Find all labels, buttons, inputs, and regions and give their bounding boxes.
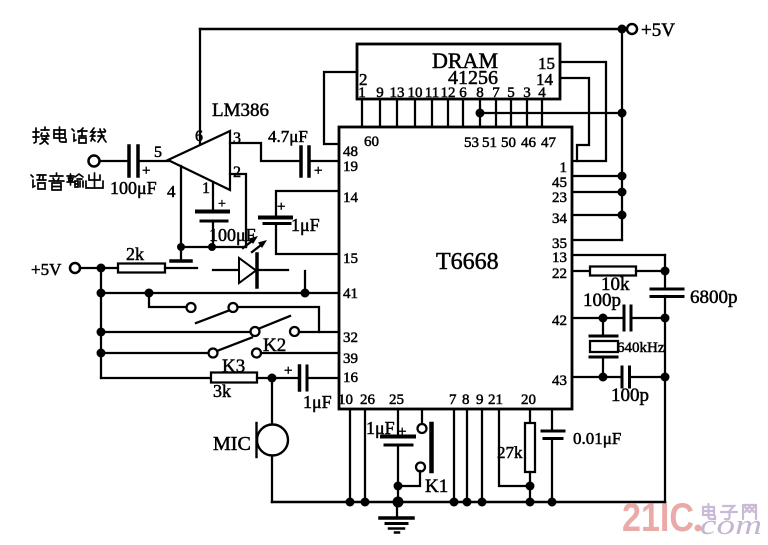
svg-text:45: 45 [552, 175, 567, 191]
svg-text:100p: 100p [583, 290, 621, 311]
wire LM386 pin4 down [180, 166, 182, 247]
svg-text:13: 13 [552, 250, 567, 266]
node junction pin4/gnd [177, 243, 185, 251]
resistor 3k row pin16 [101, 377, 211, 379]
switch K2 row pin32 [101, 331, 250, 333]
svg-text:5: 5 [154, 144, 162, 161]
ground stub under LM386 [180, 247, 182, 260]
label yu-yin-shu-chu (voice output) [31, 173, 103, 190]
svg-text:26: 26 [360, 392, 376, 408]
svg-text:22: 22 [552, 266, 567, 282]
svg-text:16: 16 [343, 370, 359, 386]
wire pin35 to +5V bus end [572, 239, 622, 241]
left bus vertical [100, 268, 102, 378]
wire pin34 to +5V bus [572, 214, 622, 216]
terminal +5V top right [627, 24, 637, 34]
right bus vertical upper [664, 255, 666, 289]
svg-text:3: 3 [233, 130, 241, 147]
svg-text:100p: 100p [611, 385, 649, 406]
svg-text:20: 20 [521, 392, 536, 408]
capacitor 0.01uF [551, 409, 553, 429]
svg-text:4: 4 [167, 182, 176, 201]
wire T6668 pin14 to C1uF [276, 191, 339, 216]
resistor 27k [529, 409, 531, 423]
svg-text:32: 32 [343, 330, 358, 346]
svg-text:+: + [142, 163, 150, 179]
svg-text:50: 50 [501, 135, 516, 151]
svg-text:41256: 41256 [448, 67, 498, 89]
svg-text:2: 2 [233, 164, 241, 181]
svg-text:1: 1 [560, 160, 568, 176]
capacitor 6800p [651, 288, 683, 291]
svg-text:LM386: LM386 [212, 100, 269, 121]
svg-text:MIC: MIC [213, 433, 251, 455]
svg-text:15: 15 [343, 251, 358, 267]
capacitor 100uF coupling (electrolytic) [127, 146, 131, 176]
node +5V junction [618, 25, 627, 34]
svg-text:53: 53 [464, 135, 479, 151]
wire LM386 pin6 to top rail [199, 29, 201, 144]
svg-text:1μF: 1μF [303, 392, 332, 412]
svg-text:21: 21 [488, 392, 503, 408]
svg-text:1μF: 1μF [291, 215, 320, 235]
svg-text:0.01μF: 0.01μF [573, 429, 621, 448]
svg-text:+5V: +5V [641, 20, 675, 41]
ground symbol [396, 502, 398, 516]
svg-text:14: 14 [343, 190, 359, 206]
svg-text:7: 7 [449, 392, 457, 408]
switch K1 [421, 409, 423, 424]
label jie-dian-hua-xian (telephone line) [33, 127, 106, 144]
wire DRAM pin15 to T6668 pin1 [560, 62, 606, 161]
op-amp U1 LM386 [168, 131, 230, 190]
svg-text:9: 9 [476, 392, 484, 408]
watermark 21IC logo [622, 496, 762, 541]
wire LM386 pin3 to C4.7uF [230, 143, 299, 161]
svg-text:+: + [314, 163, 322, 179]
wire pin22 to resistor 10k [572, 270, 590, 272]
svg-text:100μF: 100μF [209, 225, 256, 245]
resistor 2k [118, 264, 165, 273]
capacitor 100p lower [621, 367, 624, 387]
svg-text:25: 25 [389, 392, 404, 408]
wire DRAM pin14 to T6668 pin1 [560, 78, 589, 161]
svg-text:6800p: 6800p [690, 287, 738, 308]
svg-text:640kHz: 640kHz [617, 340, 665, 356]
svg-text:3k: 3k [213, 381, 231, 401]
crystal 640kHz [602, 318, 604, 336]
wire LM386 pin2 down to junction rail [230, 174, 246, 247]
wire terminal to C 100uF [100, 160, 127, 162]
node on +5V bus at DRAM8 wire [618, 109, 627, 118]
svg-text:+: + [277, 199, 285, 215]
switch row A [149, 293, 186, 307]
wire pin23 to +5V bus [572, 191, 622, 193]
terminal telephone line [89, 156, 100, 167]
IC DRAM 41256 [357, 44, 560, 99]
LED arrows [243, 240, 254, 249]
switch K3 row pin39 [101, 352, 208, 354]
svg-text:21IC: 21IC [622, 496, 694, 540]
wire DRAM pin2 to T6668 pin48 [324, 72, 357, 144]
node junction 100uF [208, 243, 216, 251]
wire pin10 down [349, 409, 351, 502]
svg-text:8: 8 [462, 392, 470, 408]
wire pin41 row [101, 292, 339, 294]
wire +5V right bus vertical [621, 29, 623, 240]
svg-text:43: 43 [552, 373, 567, 389]
svg-text:41: 41 [343, 286, 358, 302]
wire C to LM386 output pin5 [140, 160, 170, 162]
wire pin21 to 27k bottom [499, 409, 530, 486]
wire C4.7uF to T6668 pin19 [311, 160, 339, 162]
right bus vertical lower [664, 296, 666, 502]
svg-text:+: + [398, 424, 406, 440]
wire pin9 down [481, 409, 483, 502]
svg-text:1: 1 [202, 180, 210, 197]
wire top rail from LM386 pin6 to +5V [200, 28, 622, 31]
svg-text:51: 51 [482, 135, 497, 151]
resistor 10k [590, 267, 636, 276]
wire LM386 pin1 to C100uF [212, 182, 214, 210]
svg-text:100μF: 100μF [110, 178, 157, 198]
svg-text:42: 42 [552, 313, 567, 329]
DRAM bottom pin number labels [358, 85, 546, 101]
capacitor 1uF mic coupling [298, 366, 302, 390]
LED diode D1 [213, 269, 238, 271]
wire pin8 down [466, 409, 468, 502]
capacitor 1uF (pin25) [397, 409, 399, 434]
svg-text:+: + [284, 363, 292, 379]
node DRAM pin8 junction [476, 109, 485, 118]
wire bottom ground rail [272, 501, 665, 504]
svg-text:46: 46 [521, 135, 537, 151]
svg-text:1μF: 1μF [366, 418, 395, 438]
svg-text:48: 48 [343, 144, 358, 160]
label watermark dian-zi-wang [703, 504, 756, 519]
wire pin45 to +5V bus [572, 175, 622, 177]
svg-text:23: 23 [552, 190, 567, 206]
capacitor 100p upper [623, 306, 626, 330]
microphone MIC [271, 378, 273, 425]
wires DRAM bottom pins to T6668 top [361, 99, 363, 127]
svg-text:60: 60 [364, 134, 379, 150]
svg-text:39: 39 [343, 351, 358, 367]
wire pin26 down [364, 409, 366, 502]
svg-text:+5V: +5V [31, 260, 62, 279]
wire pin43 to capacitor 100p lower [572, 376, 621, 378]
wire DRAM pin8 to +5V bus [480, 112, 622, 114]
svg-text:4.7μF: 4.7μF [268, 127, 308, 146]
wire LED to pin41 line [304, 271, 306, 293]
IC T6668 [339, 127, 572, 409]
wire junction rail under LM386 [181, 246, 246, 248]
svg-text:34: 34 [552, 211, 568, 227]
svg-text:27k: 27k [497, 443, 523, 462]
wire pin7 down [453, 409, 455, 502]
wire pin42 to capacitor 100p [572, 317, 624, 319]
svg-text:2k: 2k [126, 244, 144, 264]
svg-text:19: 19 [343, 159, 358, 175]
svg-text:47: 47 [541, 135, 557, 151]
capacitor 4.7uF [299, 147, 303, 176]
wire pin13 to right bus [572, 254, 665, 256]
svg-text:10: 10 [338, 392, 353, 408]
svg-text:T6668: T6668 [436, 249, 499, 275]
svg-text:K1: K1 [425, 476, 448, 497]
